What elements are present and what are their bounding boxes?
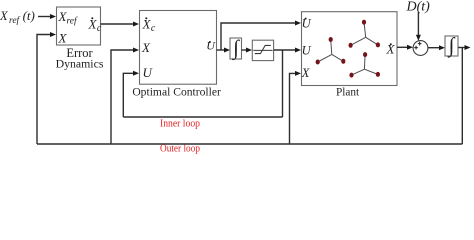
- svg-text:Inner loop: Inner loop: [160, 118, 200, 129]
- svg-text:∫: ∫: [447, 33, 456, 58]
- wire inner loop horizontal: [123, 116, 282, 118]
- port label Xdot_c (error box output): [88, 17, 102, 35]
- svg-text:U: U: [206, 38, 216, 52]
- saturation block: [252, 40, 273, 60]
- molecule 1 (left): [318, 40, 344, 63]
- wire controller output Udot to integrator: [217, 48, 231, 53]
- svg-text:Plant: Plant: [336, 87, 360, 99]
- svg-text:(t): (t): [23, 8, 35, 23]
- wire integrator 2 output: [458, 45, 471, 50]
- svg-text:X: X: [301, 66, 311, 80]
- svg-text:∫: ∫: [231, 36, 240, 61]
- port label Xdot (plant output): [386, 42, 396, 57]
- wire Xref(t) to Error Dynamics: [38, 14, 56, 19]
- wire summing junction to integrator 2: [428, 45, 445, 50]
- wire saturation to Plant U input: [274, 48, 301, 53]
- port label Udot (plant input): [302, 16, 312, 30]
- svg-text:U: U: [302, 16, 312, 30]
- block Plant: [302, 12, 398, 86]
- wire outer loop X into Plant: [290, 71, 302, 144]
- wire integrator1 to saturation: [242, 48, 253, 53]
- wire outer loop X into Error Dynamics: [37, 32, 56, 144]
- svg-text:Dynamics: Dynamics: [56, 56, 104, 70]
- wire inner loop U into controller: [123, 71, 139, 117]
- svg-text:U: U: [302, 43, 312, 57]
- summing junction: [413, 41, 428, 56]
- block Error Dynamics: [57, 7, 101, 45]
- svg-text:U: U: [143, 65, 154, 80]
- wire Xdot_c error to controller: [101, 22, 140, 27]
- svg-text:ref: ref: [9, 15, 21, 26]
- wire Plant output Xdot to summing junction: [397, 45, 413, 50]
- wire feedback vertical from output: [461, 48, 463, 145]
- block Optimal Controller: [140, 11, 217, 85]
- port label Udot (controller output): [206, 38, 216, 52]
- wire branch Udot up to Plant top input: [221, 21, 301, 51]
- svg-text:X: X: [141, 40, 151, 55]
- wire outer loop X into controller: [111, 48, 139, 145]
- port label Xdot_c (controller input): [142, 17, 156, 35]
- svg-text:Outer loop: Outer loop: [160, 144, 200, 155]
- wire outer loop horizontal: [37, 143, 462, 145]
- wire D(t) down into summing junction: [416, 12, 421, 41]
- molecule 3 (bottom right): [352, 55, 378, 76]
- integrator block 2: [445, 33, 458, 58]
- integrator block 1: [230, 36, 242, 61]
- wire inner loop right vertical branch: [282, 50, 284, 117]
- molecule 2 (top right): [351, 22, 378, 45]
- svg-text:X: X: [58, 31, 68, 46]
- svg-text:Optimal Controller: Optimal Controller: [132, 86, 221, 99]
